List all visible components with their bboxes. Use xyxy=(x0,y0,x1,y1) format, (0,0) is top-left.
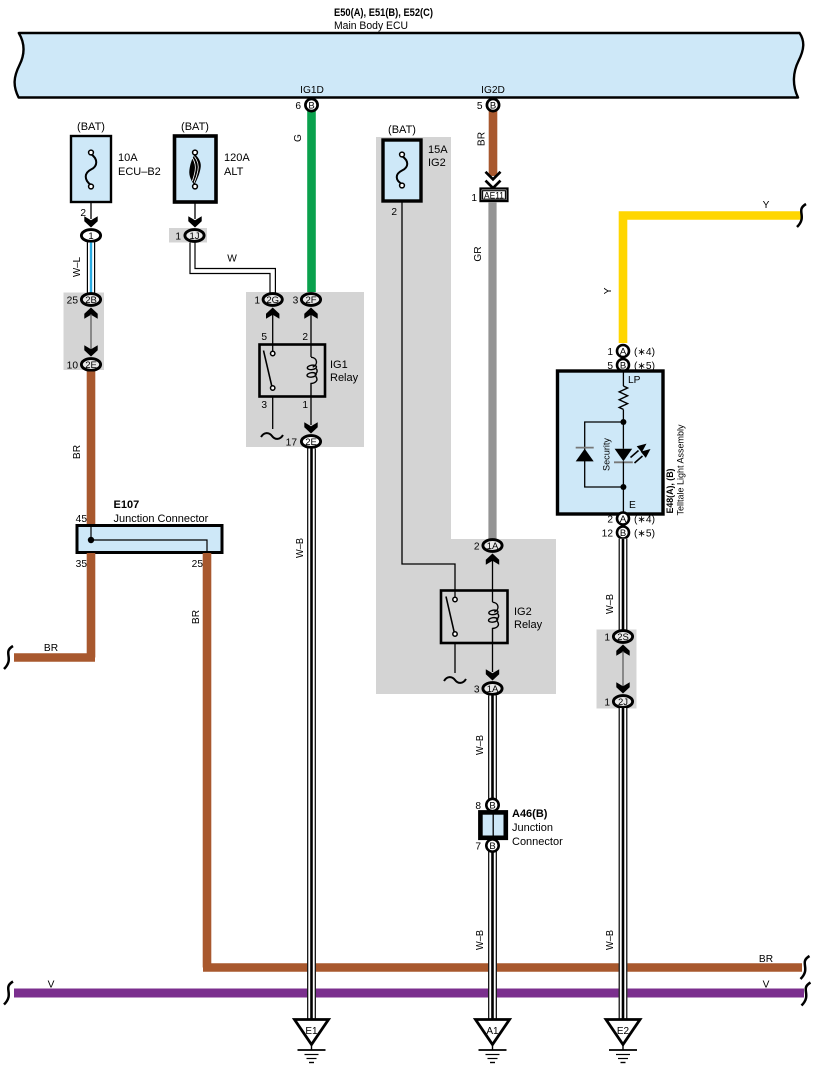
squiggle left end BR xyxy=(4,646,13,669)
gray background behind 2B/2E connectors xyxy=(64,293,105,371)
connector pair arrows 2S-2J xyxy=(616,645,629,656)
svg-text:Relay: Relay xyxy=(514,619,543,631)
svg-text:3: 3 xyxy=(474,684,480,695)
svg-text:B: B xyxy=(490,101,496,112)
svg-text:BR: BR xyxy=(191,610,202,624)
svg-text:W: W xyxy=(227,254,237,265)
connector 10 2E xyxy=(81,359,100,371)
svg-text:LP: LP xyxy=(628,375,641,386)
double chevron arrow under BR wire xyxy=(486,172,501,180)
wire purple V across bottom xyxy=(14,989,804,998)
connector 6 B (IG1D) xyxy=(305,99,317,111)
wire GR from AE11 to 1A xyxy=(488,203,496,539)
svg-text:7: 7 xyxy=(475,841,481,852)
wire W-L (white-blue) xyxy=(72,243,95,293)
wire W-B telltale to 2S xyxy=(605,539,628,630)
LED with emission arrows xyxy=(615,449,633,462)
svg-text:W–B: W–B xyxy=(475,735,486,755)
gray background IG2 fuse/relay block xyxy=(376,137,556,694)
svg-text:W–B: W–B xyxy=(605,594,616,614)
svg-text:GR: GR xyxy=(473,246,484,261)
svg-text:17: 17 xyxy=(286,437,298,448)
wire yellow Y xyxy=(623,216,801,344)
svg-text:BR: BR xyxy=(477,132,488,146)
connector 12 B (*5) bottom xyxy=(617,527,629,539)
svg-text:BR: BR xyxy=(759,954,773,965)
svg-text:35: 35 xyxy=(76,559,88,570)
IG2 relay switch xyxy=(446,597,454,634)
svg-text:1: 1 xyxy=(604,697,610,708)
svg-text:1: 1 xyxy=(302,400,308,411)
svg-text:Relay: Relay xyxy=(330,372,359,384)
svg-text:B: B xyxy=(489,841,495,852)
svg-text:1A: 1A xyxy=(487,541,499,552)
wire W-B from 2J to ground E2 xyxy=(605,708,628,1020)
arrow below 2F xyxy=(304,308,317,319)
svg-text:E: E xyxy=(629,500,636,511)
wire BR from 2E to E107 xyxy=(87,372,96,526)
svg-text:V: V xyxy=(48,980,55,991)
svg-text:1: 1 xyxy=(604,632,610,643)
svg-text:IG1D: IG1D xyxy=(300,85,324,96)
svg-text:A: A xyxy=(620,347,627,358)
gray background IG1 relay block xyxy=(246,292,364,447)
svg-text:15A: 15A xyxy=(428,144,448,156)
svg-text:45: 45 xyxy=(76,514,88,525)
svg-text:Connector: Connector xyxy=(512,836,563,848)
connector 1 2S xyxy=(613,631,632,643)
diode D1 xyxy=(576,447,594,449)
svg-text:(∗4): (∗4) xyxy=(634,347,655,358)
connector oval 1 xyxy=(81,230,100,242)
wire W-B from 3 1A to ground A1 xyxy=(475,696,497,1020)
arrow below 2G xyxy=(266,308,279,319)
node dot top xyxy=(620,419,626,425)
wire relay pin 1 to 2E xyxy=(310,397,312,426)
wire W-B from 2E to ground E1 xyxy=(295,449,316,1020)
connector 2 1A xyxy=(483,540,502,552)
connector 1 2J xyxy=(613,696,632,708)
svg-text:IG2: IG2 xyxy=(428,157,446,169)
svg-text:E50(A), E51(B), E52(C): E50(A), E51(B), E52(C) xyxy=(334,7,433,19)
connector 5 B (*5) top xyxy=(617,359,629,371)
svg-text:1: 1 xyxy=(471,193,477,204)
wire W from 1J to 2G (double line) xyxy=(190,243,275,294)
svg-text:10A: 10A xyxy=(118,152,138,164)
ground E1 xyxy=(295,1020,329,1063)
svg-text:2G: 2G xyxy=(266,295,279,306)
wire brown BR from ECU pin 5 xyxy=(489,110,498,176)
wire BR from E107 pin35 to left edge xyxy=(14,553,95,658)
arrow into connector 1J xyxy=(188,216,201,227)
connector 3 2F xyxy=(301,294,320,306)
svg-text:A: A xyxy=(620,514,627,525)
arrow below 2 1A xyxy=(486,554,499,565)
svg-text:ALT: ALT xyxy=(224,166,244,178)
svg-text:1: 1 xyxy=(88,231,93,242)
svg-text:(∗4): (∗4) xyxy=(634,514,655,525)
svg-text:5: 5 xyxy=(261,332,267,343)
svg-text:10: 10 xyxy=(67,360,79,371)
svg-text:5: 5 xyxy=(477,101,483,112)
svg-text:E107: E107 xyxy=(114,499,140,511)
svg-text:25: 25 xyxy=(67,295,79,306)
connector 1 AE11 xyxy=(481,189,508,202)
svg-text:W–B: W–B xyxy=(605,930,616,950)
svg-text:B: B xyxy=(620,528,626,539)
svg-text:6: 6 xyxy=(295,101,301,112)
gray background behind 1J connector xyxy=(169,228,207,243)
pin of F2 xyxy=(194,202,196,219)
wire 2F arrow to relay pin 2 xyxy=(310,314,312,357)
relay IG1 box xyxy=(260,345,326,397)
svg-text:1: 1 xyxy=(607,347,613,358)
svg-text:V: V xyxy=(763,980,770,991)
gray background behind 2S/2J connectors xyxy=(597,630,637,709)
svg-text:B: B xyxy=(308,101,314,112)
svg-text:1A: 1A xyxy=(487,684,499,695)
connector 3 1A xyxy=(483,683,502,695)
svg-text:B: B xyxy=(489,801,495,812)
svg-text:IG2D: IG2D xyxy=(481,85,505,96)
svg-text:(BAT): (BAT) xyxy=(77,121,105,133)
IG1 relay coil xyxy=(307,357,317,396)
svg-text:IG1: IG1 xyxy=(330,359,348,371)
connector 1 2G xyxy=(263,294,282,306)
svg-text:Junction Connector: Junction Connector xyxy=(114,513,209,525)
wire BR from E107 pin25 down and right xyxy=(203,553,802,968)
node dot bottom xyxy=(620,484,626,490)
svg-text:A1: A1 xyxy=(486,1026,499,1037)
svg-text:2S: 2S xyxy=(617,632,629,643)
svg-text:1J: 1J xyxy=(189,231,199,242)
svg-text:(∗5): (∗5) xyxy=(634,528,655,539)
connector 17 2E xyxy=(301,436,320,448)
svg-text:Y: Y xyxy=(603,287,614,294)
ground A1 xyxy=(476,1020,510,1063)
svg-text:120A: 120A xyxy=(224,152,250,164)
junction connector A46(B) xyxy=(480,812,505,837)
squiggle right end V xyxy=(802,983,811,1006)
svg-text:25: 25 xyxy=(192,559,204,570)
svg-text:2E: 2E xyxy=(85,360,97,371)
svg-text:W–B: W–B xyxy=(475,930,486,950)
wire 1A to IG2 relay coil xyxy=(492,560,494,602)
arrow into 3 1A xyxy=(486,669,499,680)
connector 7 B (A46) xyxy=(486,839,498,851)
resistor LP xyxy=(619,386,627,409)
svg-text:2B: 2B xyxy=(85,295,97,306)
svg-text:ECU–B2: ECU–B2 xyxy=(118,166,161,178)
IG1 relay switch xyxy=(264,351,273,388)
internal wire and node of E107 xyxy=(90,527,92,540)
svg-text:BR: BR xyxy=(72,445,83,459)
svg-text:E1: E1 xyxy=(305,1026,318,1037)
svg-text:(BAT): (BAT) xyxy=(181,121,209,133)
svg-text:(BAT): (BAT) xyxy=(388,124,416,136)
wire green G from ECU pin 6 xyxy=(307,110,316,292)
svg-text:2: 2 xyxy=(302,332,308,343)
wire IG2 switch to tilde xyxy=(454,643,456,673)
connector 5 B (IG2D) xyxy=(487,99,499,111)
connector 25 2B xyxy=(81,294,100,306)
connector 8 B (A46) xyxy=(486,799,498,811)
svg-text:12: 12 xyxy=(602,528,614,539)
svg-text:Telltale Light Assembly: Telltale Light Assembly xyxy=(676,424,687,515)
squiggle left end V xyxy=(4,982,13,1005)
svg-text:Security: Security xyxy=(602,438,613,471)
squiggle right end BR xyxy=(801,956,810,979)
wire resistor to node xyxy=(622,410,624,449)
svg-text:W–L: W–L xyxy=(72,257,83,277)
svg-text:2J: 2J xyxy=(618,697,628,708)
Main Body ECU band xyxy=(15,33,804,98)
IG2 relay coil xyxy=(488,602,498,643)
wire 2G arrow to relay pin 5 xyxy=(272,314,274,351)
svg-text:Junction: Junction xyxy=(512,822,553,834)
wire into resistor xyxy=(622,371,624,386)
svg-text:2: 2 xyxy=(607,514,613,525)
svg-text:3: 3 xyxy=(261,400,267,411)
svg-text:2F: 2F xyxy=(305,295,316,306)
pin 2 of F1 xyxy=(90,202,92,219)
left branch wire xyxy=(585,422,624,487)
relay IG2 box xyxy=(441,591,508,644)
svg-text:IG2: IG2 xyxy=(514,606,532,618)
svg-text:2: 2 xyxy=(474,541,480,552)
squiggle end of yellow wire xyxy=(797,204,806,227)
wire relay pin 3 to tilde xyxy=(272,397,274,430)
connector 1 A (*4) top xyxy=(617,345,629,357)
arrow into 17 2E xyxy=(304,422,317,433)
svg-text:Main Body ECU: Main Body ECU xyxy=(334,20,408,32)
tilde continuation symbol xyxy=(444,677,466,683)
ground E2 xyxy=(606,1020,640,1063)
svg-text:E48(A), (B): E48(A), (B) xyxy=(665,469,676,514)
tilde continuation symbol xyxy=(261,433,283,439)
wire to box bottom xyxy=(622,461,624,514)
telltale light assembly box E48 xyxy=(558,371,664,514)
connector pair arrows 2B-2E xyxy=(84,308,97,319)
wire IG2 coil to 3 1A xyxy=(492,643,494,672)
connector 2 A (*4) bottom xyxy=(617,513,629,525)
svg-text:E2: E2 xyxy=(617,1026,630,1037)
svg-text:G: G xyxy=(293,134,304,142)
connector oval 1 1J xyxy=(185,230,204,242)
svg-text:AE11: AE11 xyxy=(484,191,504,202)
svg-text:Y: Y xyxy=(763,200,770,211)
svg-text:A46(B): A46(B) xyxy=(512,808,548,820)
svg-text:2E: 2E xyxy=(305,437,317,448)
arrow into connector 1 xyxy=(84,216,97,227)
svg-text:1: 1 xyxy=(175,231,181,242)
svg-text:1: 1 xyxy=(254,295,260,306)
svg-text:BR: BR xyxy=(44,643,58,654)
svg-text:3: 3 xyxy=(293,295,299,306)
svg-text:W–B: W–B xyxy=(295,538,306,558)
svg-text:2: 2 xyxy=(391,207,397,218)
